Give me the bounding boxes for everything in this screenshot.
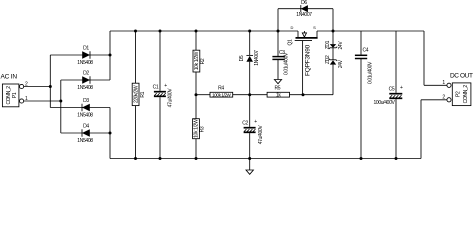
junction D5 node [248, 93, 251, 96]
diode D5 [239, 31, 260, 95]
svg-text:1N5408: 1N5408 [77, 60, 93, 66]
svg-text:S: S [313, 25, 316, 30]
junction bottom rail C5 [395, 157, 398, 160]
svg-text:+: + [254, 119, 257, 125]
junction top rail R1 [134, 30, 137, 33]
junction divider node [195, 93, 198, 96]
junction bottom rail C1 [159, 157, 162, 160]
node AC2 vertical [60, 80, 62, 133]
svg-text:47u/400V: 47u/400V [168, 88, 174, 108]
diode D6 [278, 0, 333, 31]
connector P2 [442, 80, 470, 105]
svg-text:+: + [400, 85, 403, 91]
capacitor C3 [272, 31, 289, 80]
svg-text:D5: D5 [239, 55, 245, 61]
resistor R5 [267, 85, 333, 98]
wire bottom rail [110, 158, 421, 160]
junction D1 cathode [109, 54, 112, 57]
capacitor C5 [373, 31, 403, 159]
svg-text:ZD2: ZD2 [325, 55, 331, 64]
wire DC out minus [421, 100, 447, 159]
svg-text:100k 1/2W: 100k 1/2W [212, 92, 231, 97]
svg-text:24V: 24V [338, 59, 344, 68]
resistor R4 [210, 85, 267, 97]
svg-text:C2: C2 [242, 121, 248, 127]
svg-text:R2: R2 [200, 58, 206, 64]
junction bottom rail R1 [134, 157, 137, 160]
junction top rail source node [332, 30, 335, 33]
svg-text:1N4007: 1N4007 [254, 50, 260, 66]
wire DC out plus [424, 31, 447, 85]
svg-text:D: D [291, 25, 294, 30]
diode D1 [50, 46, 110, 67]
junction top rail D5 [248, 30, 251, 33]
junction bottom rail C2 gnd [248, 157, 251, 160]
svg-text:24V: 24V [338, 41, 344, 50]
svg-text:Q1: Q1 [287, 39, 293, 46]
junction top rail R2 [195, 30, 198, 33]
node AC1 vertical [49, 55, 51, 108]
resistor R3 [193, 95, 206, 159]
svg-text:D1: D1 [83, 46, 89, 52]
junction AC1 [49, 85, 52, 88]
svg-text:+: + [164, 83, 167, 89]
capacitor C2 [242, 95, 264, 159]
svg-text:DC OUT: DC OUT [450, 73, 473, 80]
connector P1 [2, 81, 28, 106]
svg-text:0.01u/400V: 0.01u/400V [284, 52, 290, 75]
svg-text:R4: R4 [218, 85, 224, 91]
svg-text:P1: P1 [12, 92, 18, 98]
svg-text:1N5408: 1N5408 [77, 138, 93, 144]
svg-text:C5: C5 [389, 86, 395, 92]
svg-text:AC IN: AC IN [1, 74, 18, 81]
junction top rail C1 [159, 30, 162, 33]
svg-text:CONN_2: CONN_2 [6, 86, 12, 105]
diode D2 [61, 71, 110, 92]
svg-text:220k/2W: 220k/2W [133, 85, 139, 103]
svg-text:R5: R5 [274, 85, 280, 91]
svg-text:D3: D3 [83, 98, 89, 104]
junction gate [302, 93, 305, 96]
svg-text:0.01u/400V: 0.01u/400V [368, 61, 374, 84]
svg-text:100u/400V: 100u/400V [373, 100, 395, 106]
resistor R2 [193, 31, 206, 95]
svg-text:ZD1: ZD1 [325, 40, 331, 49]
ground symbol [246, 159, 253, 175]
wire gate row [196, 94, 210, 96]
svg-text:1: 1 [442, 80, 445, 86]
junction bottom rail R3 [195, 157, 198, 160]
capacitor C1 [153, 31, 174, 159]
svg-text:R3: R3 [199, 126, 205, 132]
junction bottom rail C4 [360, 157, 363, 160]
svg-text:C1: C1 [153, 84, 159, 90]
resistor R1 [132, 31, 146, 159]
wire top rail right [317, 30, 424, 32]
wire pin2 of P1 [24, 86, 51, 88]
svg-text:CONN_2: CONN_2 [463, 85, 469, 104]
zener ZD1 [325, 31, 344, 50]
zener ZD2 [325, 48, 344, 95]
svg-text:FQPF3N90: FQPF3N90 [305, 44, 312, 76]
wire pin1 of P1 [24, 100, 61, 102]
svg-text:R1: R1 [140, 91, 146, 97]
ground C3 [274, 80, 281, 84]
svg-text:C4: C4 [363, 47, 369, 53]
svg-text:2: 2 [442, 95, 445, 101]
junction top rail drain node [277, 30, 280, 33]
mosfet Q1 [287, 25, 317, 95]
svg-text:1N4007: 1N4007 [296, 12, 312, 18]
svg-text:D6: D6 [301, 0, 307, 6]
diode D3 [50, 98, 110, 119]
svg-text:47u/400V: 47u/400V [258, 125, 264, 145]
junction D4 anode [109, 132, 112, 135]
capacitor C4 [355, 31, 374, 159]
wire bridge minus column [109, 108, 111, 159]
svg-text:1N5408: 1N5408 [77, 85, 93, 91]
svg-text:D4: D4 [83, 124, 89, 130]
junction AC2 [59, 100, 62, 103]
svg-text:1N5408: 1N5408 [77, 113, 93, 119]
wire top rail left [110, 30, 298, 32]
svg-text:D2: D2 [83, 71, 89, 77]
wire bridge plus column [109, 31, 111, 80]
diode D4 [61, 124, 110, 145]
svg-text:P2: P2 [455, 91, 461, 97]
